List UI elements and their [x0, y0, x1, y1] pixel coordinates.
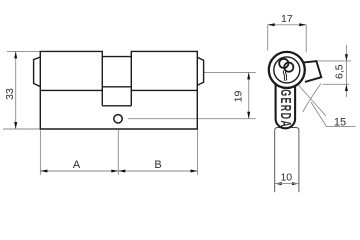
svg-text:19: 19 [233, 91, 245, 103]
svg-text:6,5: 6,5 [334, 64, 346, 79]
svg-text:A: A [73, 159, 81, 171]
svg-text:33: 33 [4, 88, 16, 100]
svg-text:GERDA: GERDA [277, 89, 294, 128]
svg-text:15: 15 [334, 116, 346, 128]
svg-text:10: 10 [280, 171, 292, 183]
svg-text:B: B [154, 159, 161, 171]
svg-text:17: 17 [281, 13, 293, 25]
